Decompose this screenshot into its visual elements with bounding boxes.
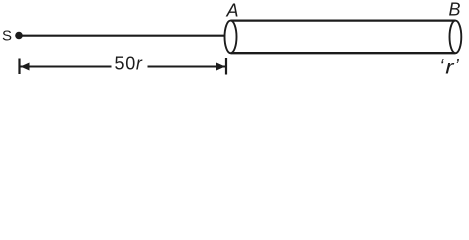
svg-text:‘: ‘: [440, 56, 445, 76]
right arrowhead: [216, 63, 225, 71]
svg-text:S: S: [2, 28, 12, 45]
tube mouth ellipse at A: [225, 21, 237, 54]
left arrowhead: [21, 63, 30, 71]
svg-text:’: ’: [455, 56, 460, 76]
svg-text:B: B: [449, 0, 461, 20]
wire from S to tube mouth A: [21, 35, 225, 37]
dimension left end bar: [18, 59, 20, 75]
dimension line right segment: [148, 66, 226, 68]
tube body top line: [231, 19, 456, 21]
svg-text:50r: 50r: [115, 54, 143, 74]
dimension line left segment: [21, 66, 112, 68]
dimension right end bar: [225, 58, 227, 75]
svg-text:A: A: [226, 0, 239, 20]
tube end ellipse at B: [450, 21, 462, 54]
tube body bottom line: [231, 52, 456, 54]
source point (node S): [15, 32, 23, 40]
